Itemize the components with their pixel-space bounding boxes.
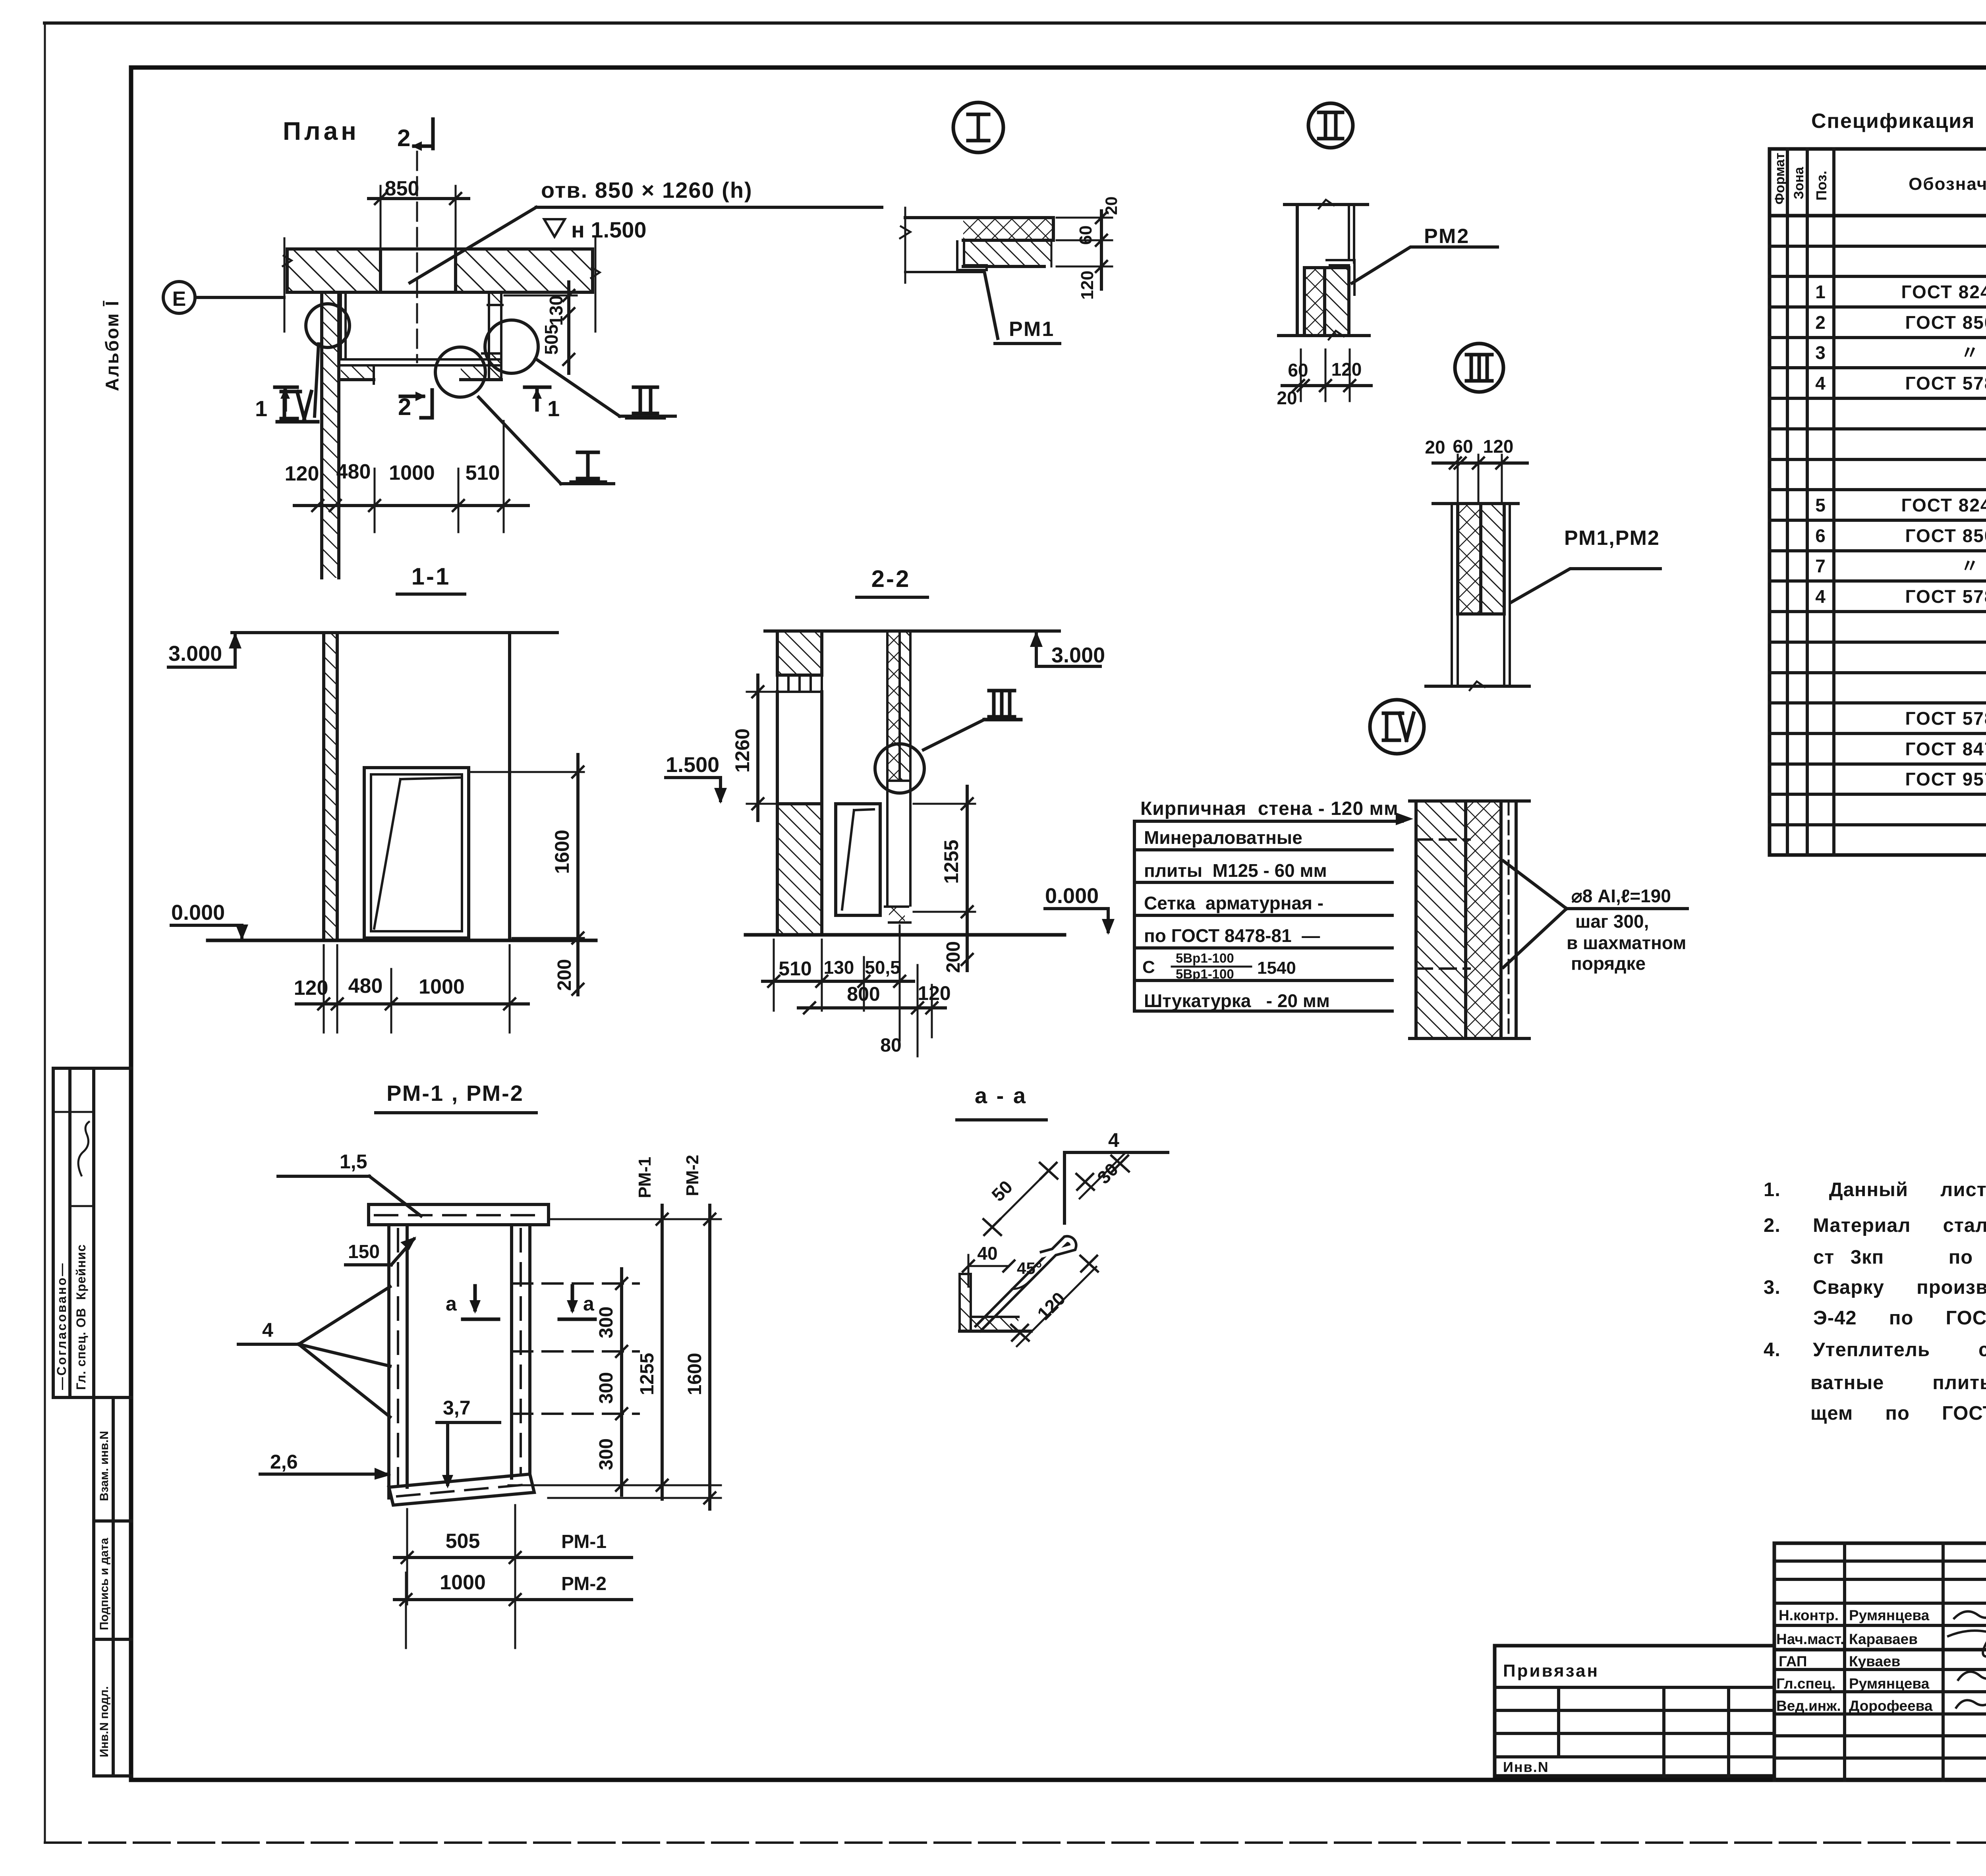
svg-text:800: 800 — [847, 983, 880, 1005]
RM title — [376, 1081, 536, 1113]
text row brick wall 120 — [1134, 798, 1413, 825]
IV right labels — [1503, 861, 1687, 974]
svg-text:510: 510 — [466, 461, 500, 484]
svg-text:45°: 45° — [1017, 1259, 1042, 1278]
section 1-1 left wall — [324, 633, 337, 940]
title block outer — [1774, 1543, 1986, 1780]
label 3,7 — [437, 1397, 500, 1488]
svg-text:130: 130 — [546, 295, 566, 326]
svg-text:Дорофеева: Дорофеева — [1849, 1698, 1933, 1714]
svg-text:60: 60 — [1453, 436, 1473, 457]
center axis of opening — [416, 152, 418, 362]
svg-text:130: 130 — [824, 957, 854, 978]
svg-text:1255: 1255 — [637, 1353, 658, 1395]
svg-text:505: 505 — [541, 324, 562, 355]
elevation 0.000 right — [1045, 884, 1115, 935]
svg-text:ГАП: ГАП — [1779, 1653, 1807, 1669]
title block small row labels — [1776, 1607, 1933, 1714]
outer paper border bottom line — [45, 1841, 1986, 1844]
svg-text:ГОСТ 9573-82: ГОСТ 9573-82 — [1905, 769, 1986, 789]
svg-text:а: а — [583, 1293, 595, 1315]
svg-text:Н.контр.: Н.контр. — [1779, 1607, 1839, 1623]
chamber thin left wall — [341, 293, 346, 359]
svg-text:〃: 〃 — [1961, 556, 1980, 576]
svg-text:а: а — [446, 1293, 457, 1315]
svg-text:РМ2: РМ2 — [1424, 225, 1470, 248]
svg-text:80: 80 — [880, 1035, 901, 1056]
spec box rows — [1134, 821, 1392, 1011]
svg-text:3,7: 3,7 — [443, 1397, 471, 1419]
svg-text:порядке: порядке — [1571, 953, 1646, 974]
svg-text:1255: 1255 — [940, 840, 962, 884]
svg-text:РМ1: РМ1 — [1009, 318, 1055, 341]
section 2-2 title — [857, 566, 927, 597]
detail III label RM1,RM2 — [1511, 527, 1660, 602]
detail III top dims — [1425, 436, 1527, 504]
elevation mark 1.500 label — [544, 217, 647, 242]
svg-text:плиты М125 - 60 мм: плиты М125 - 60 мм — [1144, 860, 1327, 881]
svg-text:3: 3 — [1815, 342, 1826, 363]
axis E circle — [163, 282, 284, 313]
svg-text:2. Материал стальных констр: 2. Материал стальных конструкций - сталь — [1764, 1215, 1986, 1236]
svg-text:20: 20 — [1102, 197, 1121, 215]
svg-text:3.000: 3.000 — [168, 642, 222, 666]
svg-text:по ГОСТ 8478-81 —: по ГОСТ 8478-81 — — [1144, 925, 1320, 946]
svg-text:ст 3кп по ГОСТ 380-88: ст 3кп по ГОСТ 380-88 — [1813, 1247, 1986, 1268]
svg-text:6: 6 — [1815, 525, 1826, 546]
detail III drawing — [1426, 504, 1529, 690]
label 4 with three leaders — [238, 1287, 390, 1417]
section 1-1 title — [397, 563, 465, 594]
signatures squiggles — [1948, 1610, 1986, 1708]
svg-text:ГОСТ 8509-86: ГОСТ 8509-86 — [1905, 312, 1986, 333]
detail I drawing — [900, 208, 1060, 344]
detail circle I on plan — [435, 347, 485, 397]
svg-text:1: 1 — [547, 396, 560, 421]
svg-text:ГОСТ 5781-82: ГОСТ 5781-82 — [1905, 373, 1986, 394]
dim 1260 — [731, 675, 779, 820]
svg-text:в шахматном: в шахматном — [1567, 932, 1686, 953]
svg-text:Нач.маст.: Нач.маст. — [1776, 1631, 1844, 1647]
svg-text:1-1: 1-1 — [411, 563, 451, 590]
svg-text:РМ-1: РМ-1 — [561, 1531, 607, 1552]
svg-text:РМ1,РМ2: РМ1,РМ2 — [1564, 527, 1660, 550]
section 1-1 ground line — [208, 939, 596, 942]
section 1-1 window — [364, 768, 469, 938]
svg-text:1600: 1600 — [684, 1353, 705, 1395]
elevation 3.000 left — [168, 633, 241, 667]
svg-text:1260: 1260 — [731, 728, 753, 772]
a-a cut marks on RM — [446, 1286, 498, 1319]
svg-text:ГОСТ 8240-89*: ГОСТ 8240-89* — [1901, 495, 1986, 515]
svg-text:Поз.: Поз. — [1813, 171, 1830, 201]
svg-text:Зона: Зона — [1791, 166, 1806, 199]
RM left channel — [389, 1225, 407, 1498]
a-a title — [957, 1083, 1046, 1120]
svg-text:Гл. спец. ОВ Крейнис: Гл. спец. ОВ Крейнис — [74, 1244, 88, 1390]
svg-text:5Вр1-100: 5Вр1-100 — [1176, 967, 1234, 981]
svg-text:4: 4 — [1815, 373, 1826, 394]
label 1,5 with leader — [278, 1150, 421, 1216]
svg-text:Караваев: Караваев — [1849, 1631, 1918, 1647]
svg-text:План: План — [283, 117, 359, 145]
svg-text:1.500: 1.500 — [666, 753, 719, 777]
svg-text:7: 7 — [1815, 556, 1826, 576]
svg-text:300: 300 — [596, 1372, 617, 1404]
svg-text:ГОСТ 8478-81: ГОСТ 8478-81 — [1905, 739, 1986, 759]
label III with leader on 2-2 — [923, 691, 1021, 750]
title block horizontal lines small grid — [1774, 1561, 1986, 1758]
svg-text:40: 40 — [977, 1243, 997, 1264]
detail circle IV on plan — [306, 304, 350, 347]
detail II circle marker — [1308, 103, 1353, 148]
svg-text:Спецификация металла на: Спецификация металла на изделия венткаме… — [1811, 110, 1986, 133]
svg-text:⌀8 АI,ℓ=190: ⌀8 АI,ℓ=190 — [1571, 886, 1671, 906]
label 150 — [346, 1237, 416, 1265]
svg-text:2: 2 — [397, 125, 410, 151]
svg-text:Минераловатные: Минераловатные — [1144, 827, 1302, 848]
svg-text:отв. 850 × 1260 (h): отв. 850 × 1260 (h) — [541, 178, 753, 203]
svg-text:1. Данный лист см. совмес: 1. Данный лист см. совместно с АС-5 — [1764, 1179, 1986, 1200]
svg-text:ватные плиты М125 на с: ватные плиты М125 на синтетическом связу… — [1810, 1372, 1986, 1393]
svg-text:РМ-2: РМ-2 — [683, 1155, 702, 1197]
plan bottom dimension line — [285, 421, 528, 578]
outer paper border top line — [44, 21, 1986, 25]
spec table rows — [1815, 221, 1986, 789]
RM bottom bar — [389, 1474, 534, 1505]
a-a label 4 — [1064, 1129, 1168, 1223]
svg-text:Вед.инж.: Вед.инж. — [1776, 1698, 1841, 1714]
svg-text:3. Сварку производить элект: 3. Сварку производить электродами типа — [1764, 1277, 1986, 1298]
detail III circle on section 2-2 — [875, 744, 924, 793]
chamber right wall — [482, 292, 502, 380]
svg-text:—Согласовано—: —Согласовано— — [54, 1262, 69, 1390]
svg-text:0.000: 0.000 — [1045, 884, 1099, 908]
section 1-1 bottom dims — [294, 945, 528, 1033]
svg-text:1: 1 — [1815, 282, 1826, 302]
RM bottom dims 505 1000 — [394, 1505, 632, 1648]
RM right channel — [512, 1225, 530, 1478]
svg-text:ГОСТ 5781-82: ГОСТ 5781-82 — [1905, 708, 1986, 729]
svg-text:1,5: 1,5 — [340, 1150, 367, 1173]
plan right vertical dims 130 505 — [504, 282, 577, 373]
svg-text:Гл.спец.: Гл.спец. — [1776, 1675, 1835, 1692]
plan section mark 2 bottom — [398, 390, 432, 420]
svg-text:Э-42 по ГОСТ 9467-75.: Э-42 по ГОСТ 9467-75. — [1813, 1307, 1986, 1329]
svg-text:1: 1 — [255, 396, 267, 421]
svg-text:120: 120 — [1331, 359, 1362, 380]
outer paper border left line — [44, 23, 46, 1843]
svg-text:щем по ГОСТ 9573-82 толщино: щем по ГОСТ 9573-82 толщиной 60 мм. — [1810, 1403, 1986, 1424]
detail I circle marker — [953, 102, 1003, 152]
section 2-2 duct wall — [885, 631, 910, 923]
svg-text:1540: 1540 — [1257, 958, 1296, 978]
svg-text:200: 200 — [943, 941, 964, 973]
svg-text:2-2: 2-2 — [871, 566, 911, 592]
label 2,6 — [260, 1451, 391, 1480]
RM right dims 300x3 — [508, 1269, 721, 1495]
svg-text:120: 120 — [285, 462, 319, 485]
svg-text:Румянцева: Румянцева — [1849, 1607, 1930, 1623]
svg-text:200: 200 — [554, 959, 575, 991]
svg-text:5: 5 — [1815, 495, 1826, 515]
svg-text:1600: 1600 — [551, 830, 573, 874]
section 2-2 window — [836, 804, 880, 915]
plan section mark 2 top — [397, 119, 433, 151]
svg-text:шаг 300,: шаг 300, — [1575, 911, 1649, 932]
a-a dims — [963, 1154, 1129, 1346]
svg-text:Инв.N подл.: Инв.N подл. — [98, 1686, 111, 1757]
elevation 3.000 right — [1030, 631, 1105, 667]
svg-text:1000: 1000 — [440, 1571, 486, 1594]
svg-text:РМ-1 , РМ-2: РМ-1 , РМ-2 — [386, 1081, 524, 1106]
svg-text:120: 120 — [1483, 436, 1514, 457]
svg-text:2,6: 2,6 — [270, 1451, 298, 1473]
elevation 1.500 — [666, 753, 727, 804]
svg-text:〃: 〃 — [1961, 342, 1980, 363]
svg-text:Кирпичная стена - 120 мм: Кирпичная стена - 120 мм — [1140, 798, 1399, 819]
svg-text:РМ-2: РМ-2 — [561, 1573, 607, 1594]
svg-text:5Вр1-100: 5Вр1-100 — [1176, 951, 1234, 965]
svg-text:480: 480 — [336, 460, 371, 483]
svg-text:4: 4 — [1108, 1129, 1119, 1151]
svg-text:150: 150 — [348, 1241, 380, 1262]
svg-text:4. Утеплитель стен вентка: 4. Утеплитель стен венткамеры - минерало… — [1764, 1339, 1986, 1361]
svg-text:Инв.N: Инв.N — [1503, 1759, 1549, 1775]
IV wall section drawing — [1410, 801, 1529, 1038]
spec table headers — [1772, 153, 1986, 206]
detail circle II on plan — [485, 320, 538, 373]
elevation 0.000 left — [171, 901, 248, 940]
svg-text:Штукатурка - 20 мм: Штукатурка - 20 мм — [1144, 990, 1330, 1011]
svg-text:20: 20 — [1277, 388, 1297, 408]
svg-text:20: 20 — [1425, 437, 1445, 457]
svg-text:ГОСТ 8509-86: ГОСТ 8509-86 — [1905, 525, 1986, 546]
detail II bottom dims — [1277, 349, 1371, 408]
svg-text:60: 60 — [1076, 226, 1095, 245]
section 2-2 ground line — [746, 933, 1064, 937]
detail II label RM2 — [1352, 225, 1497, 283]
a-a L angle — [960, 1274, 1031, 1331]
svg-text:120: 120 — [294, 977, 328, 1000]
dim 850 over opening — [369, 177, 469, 247]
section 2-2 bottom dims row1 — [763, 925, 914, 1040]
svg-text:850: 850 — [385, 177, 419, 200]
svg-text:120: 120 — [1078, 270, 1097, 299]
svg-text:Альбом Ī: Альбом Ī — [102, 300, 122, 391]
svg-text:0.000: 0.000 — [171, 901, 225, 924]
section 2-2 bottom dims row2 — [798, 965, 951, 1056]
svg-text:4: 4 — [1815, 586, 1826, 607]
leader to opening — [410, 207, 536, 283]
svg-text:120: 120 — [918, 982, 950, 1004]
section 2-2 left wall — [777, 631, 822, 935]
svg-text:60: 60 — [1288, 360, 1308, 380]
RM right dims 1255 1600 — [548, 1155, 721, 1509]
svg-text:Привязан: Привязан — [1503, 1661, 1599, 1681]
svg-text:Е: Е — [172, 288, 186, 311]
svg-text:Обозначение: Обозначение — [1909, 174, 1986, 194]
svg-text:ГОСТ 8240-89*: ГОСТ 8240-89* — [1901, 282, 1986, 302]
section 1-1 top slab line — [232, 631, 557, 634]
svg-text:3.000: 3.000 — [1051, 643, 1105, 667]
label IV with leader — [277, 344, 319, 422]
svg-text:а - а: а - а — [975, 1083, 1027, 1108]
section 1-1 right wall line — [508, 633, 511, 940]
svg-text:1000: 1000 — [419, 975, 465, 998]
svg-text:Формат: Формат — [1772, 153, 1787, 205]
a-a clamp strip — [977, 1240, 1073, 1330]
svg-text:300: 300 — [596, 1438, 617, 1470]
svg-text:Подпись и дата: Подпись и дата — [98, 1538, 111, 1630]
svg-text:4: 4 — [262, 1319, 273, 1341]
svg-text:РМ-1: РМ-1 — [635, 1157, 655, 1199]
left attachment strip table — [53, 1068, 131, 1776]
section 2-2 top line — [765, 629, 1059, 633]
label II with leader — [535, 359, 675, 418]
plan section mark 1 left — [255, 387, 297, 421]
svg-text:Румянцева: Румянцева — [1849, 1675, 1930, 1692]
spec table grid — [1770, 149, 1986, 855]
svg-text:480: 480 — [348, 975, 383, 998]
svg-text:ГОСТ 5781-82: ГОСТ 5781-82 — [1905, 586, 1986, 607]
plan section mark 1 right — [525, 387, 560, 421]
RM top flange — [369, 1204, 549, 1225]
detail III circle marker — [1455, 344, 1503, 392]
svg-text:н 1.500: н 1.500 — [571, 217, 647, 242]
svg-text:С: С — [1142, 957, 1155, 977]
dim 1255 and 200 right of 2-2 — [914, 786, 975, 973]
section 1-1 right dims 1600 200 — [471, 755, 584, 995]
svg-text:505: 505 — [446, 1530, 480, 1553]
ceiling band with hatch — [283, 238, 600, 332]
svg-text:300: 300 — [596, 1307, 617, 1338]
svg-text:Сетка арматурная -: Сетка арматурная - — [1144, 893, 1323, 913]
label I with leader — [479, 397, 614, 484]
svg-text:1000: 1000 — [389, 461, 435, 484]
svg-text:510: 510 — [779, 957, 811, 980]
chamber bottom wall — [341, 359, 501, 384]
detail I dims right — [1057, 197, 1121, 300]
detail II drawing — [1279, 200, 1369, 340]
svg-text:Взам. инв.N: Взам. инв.N — [98, 1431, 111, 1501]
brick wall vertical (120) — [322, 292, 339, 578]
svg-text:2: 2 — [1815, 312, 1826, 333]
svg-text:50,5: 50,5 — [865, 957, 900, 978]
svg-text:Куваев: Куваев — [1849, 1653, 1900, 1669]
